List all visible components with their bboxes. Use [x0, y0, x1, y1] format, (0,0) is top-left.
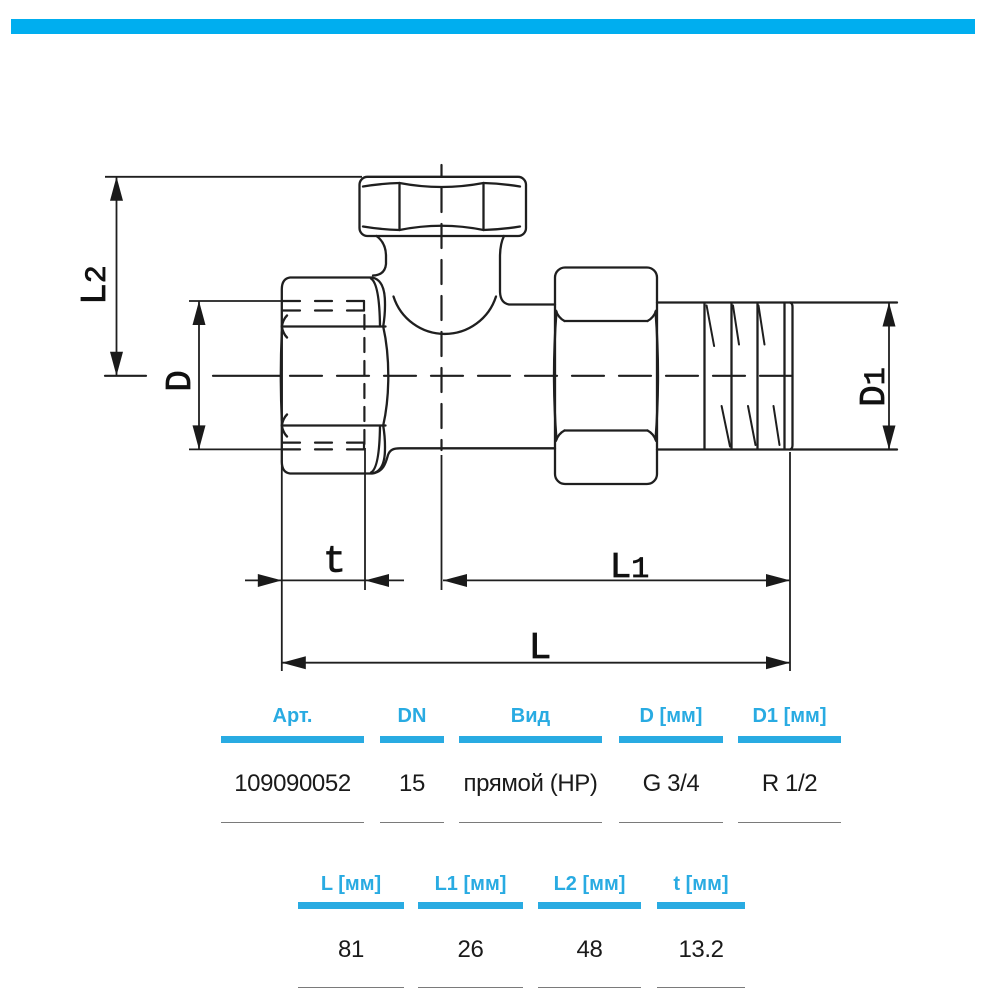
arrow L left — [282, 656, 306, 669]
dimension line L — [282, 662, 790, 664]
arrow t right — [365, 574, 389, 587]
male pipe top edge — [657, 301, 897, 303]
pipe end chamfer line — [783, 303, 785, 449]
thread depth hidden line — [363, 315, 365, 448]
arrow D top — [193, 301, 206, 325]
top nut facet line left — [398, 183, 400, 230]
svg-text:L1: L1 — [610, 547, 650, 588]
arrow D1 bottom — [883, 426, 896, 450]
dimension line L1 — [443, 579, 790, 581]
svg-text:D: D — [160, 370, 201, 392]
left end chamfer arc top-right — [371, 279, 380, 327]
thread crest line 2 — [730, 303, 732, 449]
thread hidden dashes lower — [283, 443, 364, 450]
thread hidden dashes upper — [283, 301, 364, 311]
top nut side facet arcs — [363, 183, 520, 230]
union nut facet line upper — [565, 320, 648, 322]
table 2 column t — [657, 872, 745, 896]
extension line top of nut — [105, 176, 362, 178]
table 1 column D — [619, 704, 723, 728]
union nut facet line lower — [565, 429, 648, 431]
dimension line D — [198, 301, 200, 449]
svg-text:L2: L2 — [75, 265, 116, 305]
internal dome arc — [394, 297, 497, 334]
table 1 column Art header — [221, 704, 364, 728]
left female hex end outline — [282, 278, 389, 474]
arrow t left — [258, 574, 282, 587]
thread hidden connector lower — [363, 443, 365, 450]
body bottom edge with fillet — [372, 448, 555, 473]
technical drawing — [0, 0, 1000, 700]
union nut outline — [555, 268, 657, 485]
table 2 column L2 — [538, 872, 641, 896]
label D white mask — [160, 362, 194, 392]
dimension line D1 — [888, 303, 890, 450]
extension line right (L1,L) — [789, 452, 791, 671]
thread crest line 3 — [756, 303, 758, 449]
top nut facet line right — [482, 183, 484, 230]
extension line t right — [364, 448, 366, 590]
arrow D1 top — [883, 303, 896, 327]
dimension line t — [245, 579, 404, 581]
arrow L right — [766, 656, 790, 669]
pipe end face — [790, 303, 793, 450]
label D1 white mask — [848, 361, 882, 409]
top cyan header rule — [11, 19, 975, 34]
svg-text:t: t — [323, 541, 346, 584]
svg-text:L: L — [529, 627, 552, 670]
thread helix strokes lower — [722, 406, 780, 447]
dimension line L2 — [116, 177, 118, 376]
arrow L1 left — [443, 574, 467, 587]
top nut middle facet arcs — [400, 183, 484, 230]
neck right silhouette — [500, 236, 555, 305]
arrow L2 bottom — [110, 352, 123, 376]
left end hex facet line lower — [282, 424, 386, 426]
left end chamfer arc bottom-right — [371, 426, 380, 473]
table 1 column Vid — [459, 704, 602, 728]
horizontal center line — [105, 375, 281, 377]
left end hex facet line upper — [282, 325, 386, 327]
male pipe bottom edge — [657, 448, 897, 450]
table 1 column D1 — [738, 704, 841, 728]
thread crest line 1 — [703, 303, 705, 449]
extension line L1 left (center) — [441, 455, 443, 590]
union nut middle band edge arcs — [554, 312, 658, 440]
table 2 column L1 — [418, 872, 523, 896]
thread hidden connector upper — [363, 301, 365, 311]
arrow D bottom — [193, 425, 206, 449]
thread helix strokes upper — [707, 306, 765, 347]
arrow L1 right — [766, 574, 790, 587]
neck left silhouette — [373, 236, 386, 276]
arrow L2 top — [110, 177, 123, 201]
left end middle band edge arc — [281, 332, 282, 420]
union nut facet corner arcs — [556, 311, 656, 442]
extension lines D — [189, 301, 284, 449]
table 1 column DN — [380, 704, 444, 728]
extension line left (t,L) — [281, 460, 283, 671]
left end facet corner arcs — [282, 316, 287, 437]
top hex nut outline — [360, 177, 527, 236]
svg-text:D1: D1 — [854, 367, 895, 407]
table 2 column L — [298, 872, 404, 896]
vertical center line — [440, 165, 442, 450]
